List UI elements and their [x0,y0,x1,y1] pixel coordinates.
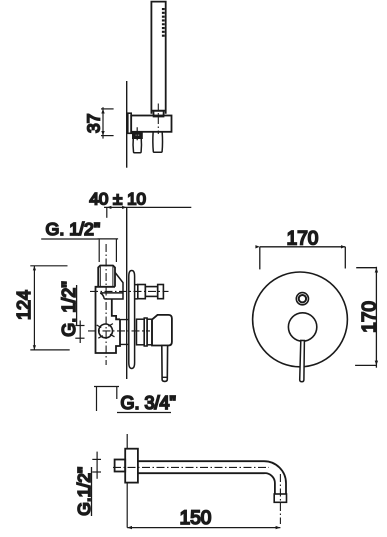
cartridge ring A [137,319,145,345]
diverter knob stem [145,287,157,297]
escutcheon plate (side view capsule) [129,271,135,369]
hose elbow cross centerlines [132,127,142,140]
handle lever (side) [162,346,168,382]
dimension 40±10 arrows [107,206,127,209]
cartridge ring C [147,319,152,345]
diverter button outer circle [296,293,308,305]
barrel lines body to plate [120,320,129,345]
spout tip [274,494,286,502]
spout G.1/2 dimension bracket [92,452,101,479]
right hose drop [153,132,163,152]
mounting bracket under stub [100,272,123,299]
thread circle knurl ticks [97,324,115,339]
dimension 150 line [127,527,280,529]
valve top outlet stub G.1/2 [98,266,115,287]
escutcheon front view big circle [253,272,348,367]
valve body upper-right profile [112,299,120,319]
diverter knob neck [135,285,138,299]
spout back extension line upper [126,434,128,449]
handle body (side) [152,315,172,346]
dimension 40±10 extension tick [106,207,108,217]
G 3/4 extension bracket [94,387,119,412]
side port dimension bracket [75,321,84,344]
svg-text:G. 1/2": G. 1/2" [46,219,101,239]
svg-text:150: 150 [180,508,212,529]
spout back extension line lower [126,483,128,528]
dimension 124 arrows [33,266,36,350]
handle circle front [288,313,316,341]
left hose drop [133,138,141,153]
dimension 40±10 leader line [104,206,191,208]
hose elbow nut (bold) [134,133,141,137]
hand shower spray holes (dotted) [162,8,165,37]
front right dimension 170 [355,267,376,368]
hand shower handle bottom inset [151,111,165,117]
valve body outline [96,287,121,353]
svg-text:37: 37 [83,114,103,133]
dimension 37 line [101,107,114,138]
svg-text:40 ± 10: 40 ± 10 [89,189,146,208]
svg-text:170: 170 [359,301,380,333]
stub thread lines [100,267,113,287]
horizontal centerline through circle/cartridge [88,330,150,332]
lever front [300,340,305,381]
spout horizontal centerline [113,466,269,468]
svg-text:124: 124 [14,290,34,320]
diverter button inner circle [299,295,306,302]
dimension 124 [30,266,69,350]
diverter knob end cap [158,285,164,299]
hand shower bracket centerline [157,104,159,135]
dimension 150 arrows [127,526,280,529]
top stub extension bracket [98,239,118,262]
svg-text:170: 170 [287,228,319,249]
thread circle (side inlet) [99,324,113,338]
front top dimension 170 [260,247,346,270]
hand shower handle [151,2,165,114]
valve vertical centerline [105,244,107,365]
wall flange of bracket [128,113,131,133]
spout wall flange [125,449,138,483]
cartridge ring B [144,318,147,346]
diverter knob flange [138,285,146,299]
diverter centerline [90,290,169,292]
hand shower bracket body [131,116,171,132]
spout inlet nipple G.1/2 [115,460,126,472]
wall line (long vertical through hand-shower bracket and valve views) [126,81,128,168]
dimension 37 arrows [101,109,104,136]
spout outlet vertical centerline [279,474,281,524]
svg-text:G. 3/4": G. 3/4" [121,393,176,413]
spout arm [138,461,286,494]
